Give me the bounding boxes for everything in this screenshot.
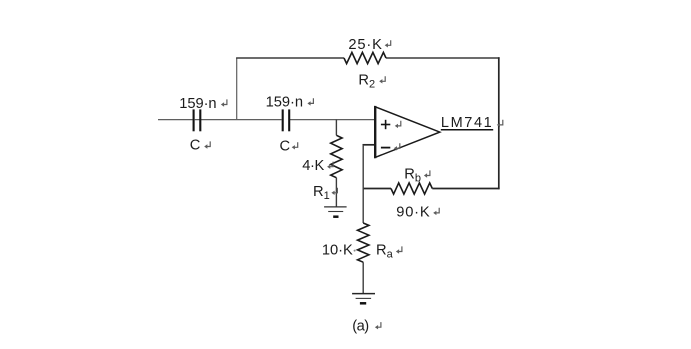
- wire: R1 top connection to input line: [335, 120, 337, 136]
- ground (R1): [324, 207, 347, 217]
- svg-text:LM741: LM741: [441, 115, 492, 131]
- svg-text:159·n: 159·n: [179, 96, 216, 112]
- resistor Rb zigzag: [391, 183, 432, 194]
- op-amp - input symbol: [381, 147, 390, 149]
- wire: top feedback, left of R2: [236, 57, 344, 59]
- ground (Ra): [352, 294, 375, 304]
- svg-text:159·n: 159·n: [266, 95, 303, 111]
- wire: Rb right segment to output node: [432, 188, 499, 190]
- svg-text:C: C: [190, 138, 201, 154]
- resistor R1 zigzag: [331, 135, 342, 177]
- capacitor C (second), plates: [283, 109, 290, 131]
- svg-text:C: C: [280, 138, 291, 154]
- wire: Rb left segment to inverting node: [363, 188, 392, 190]
- op-amp U1 triangle: [375, 106, 440, 158]
- svg-text:25·K: 25·K: [348, 37, 382, 53]
- wire: input line from C2 to op-amp + input: [290, 119, 375, 121]
- wire: input line between capacitors: [195, 119, 282, 121]
- svg-text:4·K: 4·K: [302, 158, 324, 174]
- wire: top feedback, right of R2: [386, 57, 500, 59]
- wire: inverting input stub: [363, 144, 376, 146]
- wire: input line left segment: [158, 119, 193, 121]
- svg-text:90·K: 90·K: [396, 205, 430, 221]
- op-amp + input symbol: [381, 120, 390, 129]
- wire: output node vertical (op-amp output down to Rb): [498, 57, 500, 189]
- resistor Ra zigzag: [358, 223, 369, 262]
- node A: junction between capacitors, riser to feedback loop: [236, 58, 238, 120]
- svg-text:10·K: 10·K: [322, 243, 353, 259]
- wire: inverting node vertical down to Ra: [362, 145, 364, 223]
- capacitor C (first), plates: [194, 109, 201, 131]
- wire: Ra bottom to ground: [362, 262, 364, 293]
- resistor R2 zigzag: [344, 52, 386, 63]
- wire: R1 bottom to ground: [335, 178, 337, 207]
- svg-text:(a): (a): [352, 318, 369, 334]
